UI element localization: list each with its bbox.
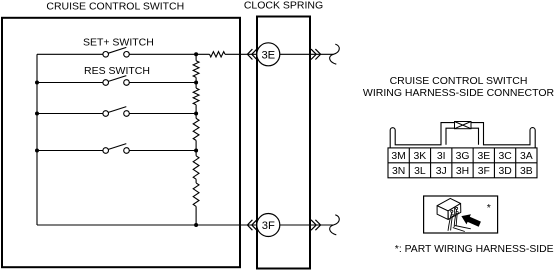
svg-text:3H: 3H (456, 166, 469, 177)
svg-text:3J: 3J (436, 166, 447, 177)
svg-text:3D: 3D (498, 166, 511, 177)
svg-text:3N: 3N (392, 166, 405, 177)
svg-text:3I: 3I (437, 151, 446, 162)
svg-text:SET+ SWITCH: SET+ SWITCH (83, 36, 154, 48)
svg-text:CLOCK SPRING: CLOCK SPRING (244, 0, 323, 12)
svg-text:3A: 3A (520, 151, 533, 162)
svg-text:3M: 3M (391, 151, 405, 162)
svg-text:CRUISE CONTROL SWITCH: CRUISE CONTROL SWITCH (46, 1, 184, 13)
svg-text:3E: 3E (477, 151, 490, 162)
svg-text:*: PART WIRING HARNESS-SIDE: *: PART WIRING HARNESS-SIDE (395, 244, 554, 255)
svg-text:3K: 3K (414, 151, 427, 162)
svg-text:RES SWITCH: RES SWITCH (84, 65, 150, 77)
svg-text:*: * (487, 202, 491, 214)
svg-text:CRUISE CONTROL SWITCH: CRUISE CONTROL SWITCH (390, 75, 528, 87)
svg-text:3F: 3F (262, 220, 275, 232)
svg-text:3C: 3C (498, 151, 512, 162)
svg-text:WIRING HARNESS-SIDE CONNECTOR: WIRING HARNESS-SIDE CONNECTOR (363, 87, 555, 99)
svg-text:3E: 3E (261, 49, 275, 61)
svg-text:3B: 3B (520, 166, 533, 177)
svg-text:3G: 3G (456, 151, 470, 162)
svg-text:3L: 3L (414, 166, 426, 177)
svg-text:3F: 3F (478, 166, 490, 177)
